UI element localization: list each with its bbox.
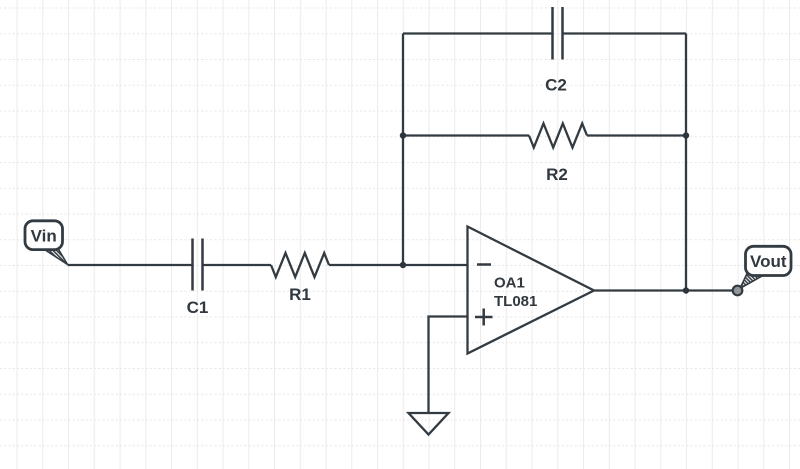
svg-text:C2: C2 bbox=[545, 76, 567, 95]
svg-text:TL081: TL081 bbox=[494, 293, 537, 310]
resistor R1 bbox=[271, 253, 329, 277]
junction dot node A / R2 row bbox=[400, 132, 406, 138]
port Vin callout tail bbox=[43, 249, 68, 265]
wire C1 to R1 bbox=[203, 264, 272, 266]
resistor R2 bbox=[529, 124, 587, 148]
junction dot right rail / R2 row bbox=[683, 132, 689, 138]
ground bbox=[409, 413, 449, 435]
svg-text:OA1: OA1 bbox=[494, 275, 525, 292]
svg-text:Vin: Vin bbox=[31, 226, 57, 245]
wire Vin to C1 bbox=[68, 264, 193, 266]
port Vout callout box bbox=[746, 246, 792, 275]
wire right rail down to output bbox=[685, 34, 687, 291]
op-amp U1 triangle bbox=[468, 227, 595, 354]
svg-text:R2: R2 bbox=[546, 165, 568, 184]
capacitor C1 bbox=[193, 239, 203, 291]
op-amp non-inverting input plus sign bbox=[475, 309, 493, 326]
wire C2 to right rail bbox=[563, 32, 687, 34]
wire node A up to top rail bbox=[402, 34, 404, 266]
wire R1 to op-amp inverting input through node A bbox=[329, 264, 468, 266]
port Vout terminal circle bbox=[740, 274, 767, 289]
junction dot right rail / output bbox=[683, 287, 689, 293]
port Vin callout box bbox=[25, 221, 63, 250]
output terminal dot bbox=[733, 286, 743, 296]
node A junction dot bbox=[400, 262, 406, 268]
wire top rail to C2 bbox=[403, 32, 553, 34]
svg-text:Vout: Vout bbox=[750, 252, 787, 271]
wire node A to R2 bbox=[403, 134, 529, 136]
op-amp inverting input minus sign bbox=[477, 263, 491, 266]
svg-text:R1: R1 bbox=[289, 285, 311, 304]
svg-text:C1: C1 bbox=[187, 298, 209, 317]
wire op-amp output to port Vout bbox=[594, 289, 738, 291]
capacitor C2 bbox=[553, 7, 563, 60]
wire non-inverting input to ground bbox=[429, 317, 468, 414]
wire R2 to right rail bbox=[587, 134, 686, 136]
